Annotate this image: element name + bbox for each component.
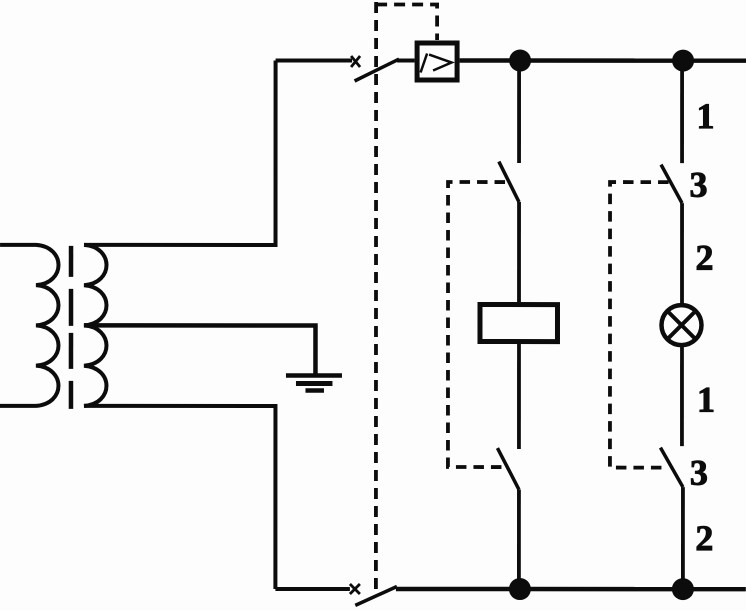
svg-text:2: 2 — [696, 238, 714, 278]
wire: right branch upper — [680, 61, 684, 163]
transformer T1 left winding — [0, 245, 59, 406]
svg-text:2: 2 — [695, 518, 713, 558]
svg-text:1: 1 — [697, 96, 715, 136]
contact K1 bottom (middle branch) blade — [497, 448, 519, 490]
wire: top feed to breaker contact — [276, 58, 353, 62]
transformer T1 core — [69, 246, 74, 409]
wire: blade to relay box — [397, 59, 415, 63]
node dot top left — [509, 50, 531, 72]
bottom bus left segment — [275, 587, 350, 591]
dashed linkage middle branch — [448, 182, 505, 467]
svg-text:1: 1 — [697, 380, 715, 420]
wire: middle branch upper — [517, 61, 521, 164]
top bus — [460, 58, 746, 63]
node dot bottom right — [672, 578, 694, 600]
bottom bus right segment — [396, 587, 746, 592]
breaker contact QF bottom: x terminal — [350, 584, 360, 594]
dashed link: boundary to relay box — [376, 5, 437, 41]
transformer T1 right winding — [84, 245, 107, 406]
dashed linkage right branch — [610, 182, 669, 468]
wire: coil to lower contact — [517, 342, 521, 449]
overcurrent relay KA box — [417, 43, 457, 80]
breaker contact QF top: blade — [355, 59, 400, 81]
contact K1 top (middle branch) blade — [499, 162, 519, 203]
relay coil KM — [480, 305, 558, 342]
contact S bottom (right branch) blade — [660, 448, 683, 488]
overcurrent relay KA symbol I> — [421, 54, 452, 73]
wire: lower contact to bottom bus — [681, 487, 685, 589]
wire: secondary bottom to bottom bus — [84, 406, 276, 589]
wire: lower contact to bottom bus — [517, 490, 521, 590]
node dot top right — [672, 50, 694, 72]
svg-text:3: 3 — [690, 453, 708, 493]
breaker contact QF top: x terminal — [351, 56, 360, 67]
svg-text:3: 3 — [690, 165, 708, 205]
dashed boundary line (breaker linkage) — [374, 2, 378, 591]
wire: secondary top to riser — [84, 60, 276, 245]
breaker contact QF bottom: blade — [355, 586, 397, 605]
wire: contact to lamp — [680, 203, 684, 305]
wire: centre tap to ground — [84, 325, 316, 374]
lamp HL — [661, 305, 701, 345]
wire: contact to coil — [517, 202, 521, 302]
wire: lamp to lower contact — [680, 345, 684, 446]
contact S top (right branch) blade — [661, 165, 682, 204]
node dot bottom left — [509, 578, 531, 600]
ground — [286, 375, 342, 390]
